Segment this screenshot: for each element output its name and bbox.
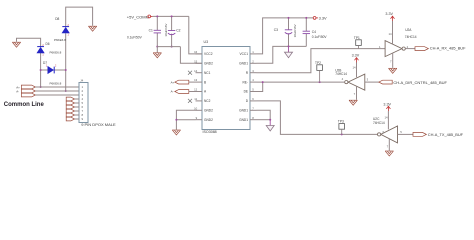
svg-text:A-: A- [16, 89, 19, 93]
svg-text:0.1uF/50V: 0.1uF/50V [312, 35, 328, 39]
svg-text:VCC1: VCC1 [239, 52, 248, 56]
svg-text:ISO3088: ISO3088 [203, 130, 217, 134]
svg-text:16: 16 [194, 50, 198, 54]
svg-text:3.3V: 3.3V [385, 12, 393, 16]
svg-text:14: 14 [352, 66, 356, 70]
svg-text:C2: C2 [176, 29, 180, 33]
svg-text:A-: A- [171, 90, 174, 94]
svg-text:GND2: GND2 [204, 62, 213, 66]
svg-text:CH-A_RX_485_BUF: CH-A_RX_485_BUF [430, 46, 466, 51]
svg-text:3.3V: 3.3V [319, 16, 327, 21]
svg-text:GND1: GND1 [239, 62, 248, 66]
svg-text:C4: C4 [312, 30, 316, 34]
svg-text:TP2: TP2 [315, 61, 321, 65]
svg-text:VCC2: VCC2 [204, 52, 213, 56]
svg-text:74HC14: 74HC14 [373, 121, 385, 125]
svg-text:14: 14 [384, 116, 388, 120]
svg-text:14: 14 [388, 32, 392, 36]
svg-text:P6KE6.8: P6KE6.8 [54, 38, 66, 42]
svg-text:3.3V: 3.3V [352, 54, 360, 58]
svg-text:10uF/16V: 10uF/16V [293, 24, 297, 37]
svg-text:C1: C1 [149, 28, 153, 32]
svg-text:J4: J4 [80, 78, 83, 82]
svg-text:NC1: NC1 [204, 71, 211, 75]
svg-text:10uF/16V: 10uF/16V [164, 24, 168, 37]
svg-text:GND1: GND1 [239, 118, 248, 122]
svg-text:D6: D6 [46, 42, 50, 46]
svg-text:P6KE6.8: P6KE6.8 [50, 82, 62, 86]
svg-text:CH-A_TX_485_BUF: CH-A_TX_485_BUF [428, 132, 464, 137]
svg-text:74HC14: 74HC14 [405, 35, 417, 39]
svg-text:U2A: U2A [405, 28, 412, 32]
svg-text:3.3V: 3.3V [383, 102, 391, 106]
svg-text:74HC14: 74HC14 [335, 72, 347, 76]
svg-text:GND1: GND1 [239, 109, 248, 113]
svg-text:+5V_COMM: +5V_COMM [127, 14, 149, 19]
svg-text:14: 14 [194, 69, 198, 73]
svg-text:DE: DE [244, 90, 248, 94]
svg-text:B: B [204, 80, 206, 84]
svg-text:U3: U3 [204, 40, 209, 44]
svg-text:P6KE6.8: P6KE6.8 [50, 51, 62, 55]
svg-text:C3: C3 [274, 28, 278, 32]
svg-text:Common Line: Common Line [4, 102, 45, 108]
svg-text:TP3: TP3 [338, 120, 344, 124]
svg-text:RE-: RE- [243, 80, 249, 84]
svg-text:GND2: GND2 [204, 109, 213, 113]
svg-text:A+: A+ [171, 80, 175, 84]
svg-text:D8: D8 [55, 17, 59, 21]
svg-text:CH-A_DIR_CNTRL_485_BUF: CH-A_DIR_CNTRL_485_BUF [393, 80, 447, 85]
svg-text:11: 11 [194, 97, 197, 101]
svg-text:TP1: TP1 [354, 36, 360, 40]
svg-text:15: 15 [194, 59, 198, 63]
svg-text:NC2: NC2 [204, 99, 211, 103]
svg-text:D7: D7 [43, 61, 47, 65]
svg-text:GND2: GND2 [204, 118, 213, 122]
svg-text:0.1uF/50V: 0.1uF/50V [127, 36, 143, 40]
svg-text:9 PIN DPOX MALE: 9 PIN DPOX MALE [81, 122, 116, 127]
